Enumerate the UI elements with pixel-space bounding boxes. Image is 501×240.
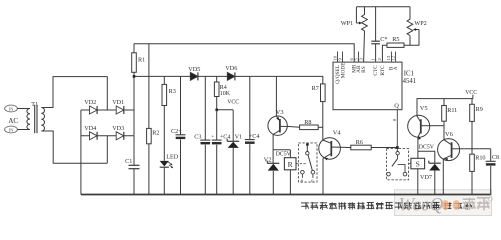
svg-text:WP1: WP1 (341, 20, 353, 27)
svg-text:C*: C* (380, 36, 387, 43)
svg-text:VD2: VD2 (84, 99, 96, 106)
resistor R4 10K (214, 76, 230, 97)
resistor R9 (470, 99, 483, 122)
transformer T1 (27, 101, 45, 133)
wire secondary bottom to node under bridge (41, 131, 107, 163)
svg-text:VCC: VCC (227, 99, 239, 105)
wire branch to VD7 (418, 151, 435, 163)
diode VD6 (225, 65, 237, 80)
svg-text:S: S (416, 160, 420, 169)
wire V5 base to R11 node (430, 125, 444, 127)
wire bridge mid-bottom vertical (106, 136, 108, 163)
IC pin Q (pin 8) (392, 102, 400, 147)
wire R6 to Q junction (371, 147, 397, 149)
svg-text:DC5V: DC5V (419, 145, 435, 151)
IC pin labels inside (335, 62, 399, 84)
svg-text:WP2: WP2 (414, 20, 426, 27)
svg-text:IN: IN (9, 107, 15, 112)
resistor R1 (132, 44, 146, 73)
svg-text:CTC: CTC (373, 65, 379, 76)
svg-text:C2+: C2+ (171, 128, 182, 135)
capacitor C4 (first) (212, 110, 231, 195)
svg-text:R2: R2 (152, 130, 159, 137)
svg-text:R3: R3 (169, 88, 176, 95)
svg-text:R9: R9 (476, 106, 483, 113)
resistor R7 (312, 84, 326, 102)
potentiometer WP2 (404, 7, 427, 45)
svg-text:V5: V5 (420, 105, 428, 112)
diode VD1 (112, 99, 124, 114)
potentiometer WP1 (341, 7, 368, 62)
svg-text:R7: R7 (312, 85, 319, 92)
svg-text:RS: RS (361, 66, 367, 73)
wire R4 to VCC node (216, 97, 218, 110)
svg-text:VD7: VD7 (420, 174, 432, 181)
capacitor C8 (486, 149, 499, 195)
diode VD3 (112, 125, 124, 140)
resistor R11 (442, 99, 458, 122)
svg-text:R11: R11 (447, 107, 457, 114)
svg-text:WeeQ: WeeQ (399, 195, 444, 216)
svg-text:Q: Q (394, 102, 399, 109)
capacitor C1 (125, 136, 139, 195)
svg-text:C8: C8 (492, 155, 499, 161)
svg-text:10K: 10K (220, 91, 231, 97)
wire rail B (main DC rail) (134, 76, 323, 84)
watermark WeeQoo (399, 195, 493, 216)
junction Q/R6/S-contact (396, 146, 399, 149)
wire V4 emitter to ground rail (322, 158, 324, 194)
svg-text:R1: R1 (138, 56, 145, 63)
resistor R6 (340, 139, 371, 150)
node VCC (217, 99, 240, 109)
svg-text:IN: IN (9, 128, 15, 133)
wire V3 emitter down (272, 135, 274, 150)
svg-text:R10: R10 (475, 154, 485, 161)
svg-text:VD3: VD3 (112, 125, 124, 132)
svg-text:C1: C1 (125, 158, 132, 165)
wire bridge top rail (81, 109, 134, 111)
wire rail A (top distribution rail) (134, 44, 354, 62)
capacitor C* (371, 7, 387, 62)
svg-text:V3: V3 (276, 109, 284, 116)
diode VD4 (84, 125, 97, 140)
relay R contacts (dashed box) (296, 143, 317, 184)
svg-text:A: A (393, 66, 399, 70)
wire R1 bottom through rail-B junction down to bridge (133, 72, 135, 110)
wire bridge right vertical (133, 110, 135, 136)
resistor R5 (382, 36, 404, 62)
svg-text:VD6: VD6 (225, 65, 237, 72)
transistor V4 (319, 129, 342, 160)
capacitor C3 (194, 76, 214, 194)
wire V6 base line to R9/R10/C8 (460, 148, 491, 150)
wire V3 collector to rail B (275, 76, 277, 116)
svg-text:RTC: RTC (380, 65, 386, 76)
resistor R10 (470, 154, 486, 194)
IC name IC1 4541 (403, 70, 417, 85)
zener VD7 (420, 161, 441, 195)
svg-text:+: + (211, 135, 214, 140)
terminal IN (top AC input) (5, 105, 18, 112)
caption text (301, 202, 472, 210)
wire bridge left vertical to ground rail (80, 110, 82, 195)
relay coil R DC5V (276, 150, 296, 195)
diode VD5 (188, 66, 200, 81)
svg-text:V2: V2 (264, 156, 272, 163)
wire secondary top to bridge mid-top node (41, 77, 107, 110)
svg-text:R6: R6 (356, 139, 363, 146)
svg-text:R4: R4 (220, 85, 227, 91)
IC pin stubs (338, 52, 396, 63)
op IC1 4541 box (333, 62, 402, 110)
svg-text:C3: C3 (194, 133, 201, 140)
svg-text:DC5V: DC5V (276, 151, 292, 157)
svg-text:MODE: MODE (340, 62, 346, 79)
svg-text:R8: R8 (304, 119, 311, 126)
transistor V6 (438, 131, 460, 161)
wire V6 emitter to ground rail (442, 159, 444, 195)
wire R3 to LED (163, 106, 165, 161)
svg-text:V1: V1 (235, 133, 243, 140)
wire IN2 to transformer primary (17, 129, 30, 131)
relay S contacts (dashed box) (387, 149, 411, 180)
wire VCC rail right (417, 99, 473, 116)
svg-text:VD5: VD5 (188, 66, 200, 73)
svg-text:V4: V4 (333, 129, 342, 136)
svg-text:T1: T1 (31, 101, 38, 108)
transistor V5 (408, 105, 430, 140)
IC pin numbers (332, 55, 395, 60)
svg-text:IC1: IC1 (404, 70, 414, 77)
wire R9 to base node (471, 121, 473, 154)
resistor R2 (147, 44, 160, 195)
svg-text:R5: R5 (392, 36, 399, 43)
wire ground/bottom rail (81, 194, 491, 196)
svg-text:AC: AC (8, 117, 18, 125)
wire top rail (356, 6, 410, 8)
transistor V3 (268, 109, 287, 135)
wire emitter fork (273, 149, 291, 151)
diode VD2 (84, 99, 97, 114)
wire V5 emitter to relay S coil (417, 137, 419, 158)
svg-text:4541: 4541 (403, 78, 417, 85)
svg-text:+C4: +C4 (220, 133, 231, 140)
svg-text:V6: V6 (445, 131, 453, 138)
capacitor C4 (second) (245, 76, 260, 194)
svg-text:+C4: +C4 (249, 133, 260, 140)
resistor R8 (287, 119, 323, 129)
wire R7 to V4 collector (322, 102, 324, 140)
svg-text:12: 12 (390, 55, 395, 60)
svg-text:VD4: VD4 (84, 125, 96, 132)
watermark plaque background (395, 190, 492, 216)
wire R11 to V6 collector (443, 121, 445, 140)
wire IN1 to transformer primary (17, 108, 30, 110)
label AC (8, 117, 18, 125)
junction rail B / R1 column (133, 75, 136, 78)
wire bridge bottom rail (81, 135, 134, 137)
relay coil S DC5V (411, 145, 435, 195)
zener V2 (264, 150, 280, 195)
svg-text:VD1: VD1 (112, 99, 124, 106)
terminal IN (bottom AC input) (5, 126, 18, 133)
svg-text:VCC: VCC (465, 90, 477, 96)
capacitor C2 (171, 76, 186, 194)
power VCC (465, 90, 477, 99)
LED (160, 153, 179, 194)
zener V1 (227, 110, 242, 195)
svg-text:LED: LED (166, 153, 179, 160)
resistor R3 (162, 76, 176, 105)
